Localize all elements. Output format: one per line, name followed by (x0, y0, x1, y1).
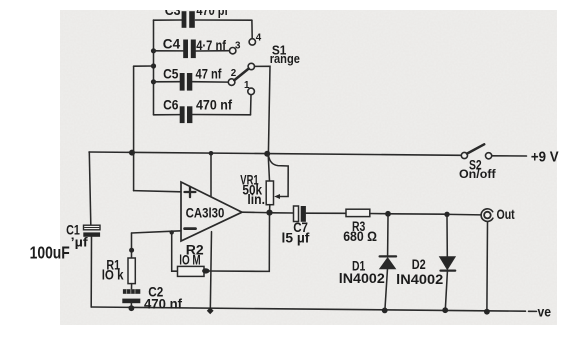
svg-text:D2: D2 (412, 257, 426, 272)
switch contact 2 (228, 79, 235, 86)
node: VR1 top junction on rail (264, 151, 270, 157)
node: cap bus to main junction tap (151, 63, 156, 68)
switch contact 1 (248, 88, 255, 95)
svg-text:470 nf: 470 nf (144, 297, 183, 312)
label C4 / 4.7 nf / 3 (163, 36, 241, 53)
wire: op-amp V- pin down to -ve rail (210, 232, 211, 311)
resistor R3 body (346, 209, 370, 216)
op-amp U1 CA3130 triangle (181, 182, 242, 241)
wire: S2 to +9V (492, 155, 527, 157)
node: R2 right blob (202, 268, 209, 273)
svg-text:4: 4 (256, 33, 262, 44)
capacitor C3 (182, 11, 195, 28)
svg-text:+9 V: +9 V (531, 149, 559, 165)
wire: node to C7 (273, 212, 294, 214)
resistor R2 body (178, 266, 205, 276)
node: C5 row tap (151, 79, 156, 84)
label C5 / 47 nf / 2 (163, 66, 237, 82)
wire: up to contact 1 (250, 95, 253, 115)
label C7 15uf (282, 220, 310, 245)
svg-text:lO k: lO k (102, 267, 124, 282)
switch S2 right contact (486, 153, 492, 159)
svg-text:1: 1 (244, 80, 250, 91)
diode D2 (440, 217, 455, 310)
svg-text:C5: C5 (163, 66, 179, 82)
wire: - input horizontal (132, 231, 182, 233)
node: R1 top (129, 248, 134, 253)
label VR1 50k lin. (240, 172, 265, 207)
svg-text:3: 3 (235, 40, 241, 51)
wire: VR1 wiper feed (jog right then down) (269, 157, 289, 197)
svg-text:Out: Out (497, 207, 516, 222)
svg-text:lN4002: lN4002 (396, 272, 443, 287)
label R1 10k (102, 258, 124, 283)
wire: R2 left lead (172, 232, 178, 271)
node: V- pin rail junction (diamond) (207, 307, 214, 314)
wire: R3 right lead (370, 213, 385, 215)
wire: down to R1 (131, 233, 133, 258)
node: junction knot on +V rail (129, 150, 135, 156)
label R3 680 ohm (343, 219, 377, 244)
node: D2 junction (444, 212, 449, 217)
node: D2 rail junction (442, 307, 448, 313)
top white crop band (0, 0, 575, 10)
wire: + input horizontal (134, 191, 181, 192)
node: C4 row tap (151, 48, 156, 53)
node: R2 left tap on - input wire (170, 230, 174, 234)
switch contact 3 (230, 48, 236, 54)
wire: -ve bottom rail (91, 307, 525, 311)
wire: to Out jack (450, 213, 481, 216)
wire: VR1 top lead (268, 155, 269, 182)
svg-text:470 nf: 470 nf (196, 96, 232, 112)
svg-text:l5 µf: l5 µf (282, 231, 310, 246)
label C2 470 nf (144, 285, 183, 312)
wire: down to contact 4 (251, 20, 253, 38)
svg-text:CA3l30: CA3l30 (186, 206, 225, 221)
label S1 range (270, 42, 300, 66)
label C1 (66, 223, 89, 250)
label D1 1N4002 (339, 259, 385, 287)
capacitor C2 (electrolytic) (122, 289, 140, 308)
diode D1 (380, 217, 397, 310)
svg-text:ve: ve (538, 304, 552, 319)
switch S2 blade (467, 144, 484, 153)
op-amp - symbol (185, 227, 196, 230)
wire: C3 loop top (154, 19, 182, 21)
switch S2 left contact (461, 152, 467, 158)
node: C2 to rail junction (129, 305, 135, 311)
op-amp + symbol (185, 187, 196, 197)
capacitor C7 (electrolytic) (294, 206, 306, 222)
switch contact 4 (249, 39, 255, 45)
svg-text:C4: C4 (163, 36, 181, 52)
wiper arrowhead (274, 194, 280, 199)
wire: +V top rail from C1 corner to S2 left contact (89, 152, 461, 155)
resistor R1 body (128, 258, 135, 284)
svg-text:lN4002: lN4002 (339, 271, 385, 286)
potentiometer VR1 body (266, 181, 273, 205)
node: Out rail junction (484, 309, 490, 315)
svg-text:’µf: ’µf (71, 235, 89, 249)
node: D1 rail junction (382, 308, 388, 314)
node: output node (266, 210, 272, 216)
wire: capacitor bank left bus (153, 20, 155, 115)
svg-text:47 nf: 47 nf (196, 66, 222, 82)
wire: op-amp output to node (242, 211, 267, 213)
label C6 / 470 nf / 1 (163, 80, 250, 113)
label D2 1N4002 (396, 257, 443, 287)
switch S1 pole (248, 63, 254, 69)
wire: junction to D2 junction (391, 213, 444, 215)
svg-text:680 Ω: 680 Ω (343, 229, 377, 244)
svg-text:C6: C6 (163, 96, 179, 112)
svg-text:lin.: lin. (247, 192, 265, 207)
wire: feedback from output node (209, 216, 270, 272)
wire: R1 to C2 (131, 284, 133, 289)
svg-text:range: range (270, 51, 300, 66)
node: R3/D1 junction (385, 211, 391, 217)
wire: tap to left vertical (134, 65, 154, 67)
svg-text:100uF: 100uF (30, 243, 70, 263)
wire: VR1 bottom lead (269, 205, 271, 210)
wire: op-amp V+ pin to rail (210, 153, 212, 195)
wire: C7 to R3 (306, 212, 346, 214)
capacitor C1 (83, 225, 100, 307)
label R2 10 M (179, 242, 204, 267)
svg-text:lO M: lO M (179, 252, 201, 267)
label -ve (529, 310, 537, 312)
capacitor C6 (180, 106, 193, 123)
node: V+ pin rail junction (209, 151, 214, 156)
wire: left vertical down to + input level (133, 66, 135, 190)
wire: C5 row (154, 81, 180, 83)
capacitor C4 (183, 40, 196, 59)
label S2 On/off (459, 157, 496, 181)
switch S1 wiper blade (234, 69, 248, 81)
svg-text:4·7 nf: 4·7 nf (196, 37, 226, 53)
svg-text:On/off: On/off (459, 168, 496, 181)
capacitor C5 (180, 73, 193, 91)
wire: corner down to C1 (89, 152, 91, 225)
Out jack (481, 209, 493, 310)
label C3 470 pf (top-cropped) (165, 2, 229, 18)
wire: C4 row (154, 50, 184, 52)
wire: S1 pole to +V rail (255, 66, 271, 153)
wire: C6 row left segment (154, 114, 181, 116)
